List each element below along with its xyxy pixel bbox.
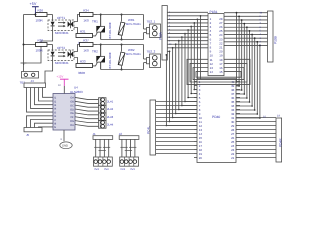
svg-text:MOV-7D431: MOV-7D431 [126, 23, 141, 26]
svg-text:OB: OB [70, 101, 74, 104]
svg-text:BT139-600E: BT139-600E [108, 52, 112, 68]
wire LED cathode return [24, 26, 53, 65]
label P10A pin numbers [169, 11, 172, 46]
svg-text:+12V: +12V [57, 75, 64, 79]
svg-text:OPT2: OPT2 [57, 46, 65, 50]
svg-text:U4: U4 [74, 85, 78, 89]
svg-text:OPT1: OPT1 [57, 16, 65, 20]
wire bundle PC4L to PD40 [156, 102, 194, 154]
wire bundle right riser staircase [236, 12, 261, 119]
svg-text:MOV-7D431: MOV-7D431 [126, 53, 141, 56]
svg-text:MOC3041: MOC3041 [55, 31, 69, 35]
svg-text:J1: J1 [93, 132, 97, 136]
svg-text:R30: R30 [38, 38, 44, 42]
svg-text:TR2: TR2 [92, 50, 98, 54]
svg-text:ULN2803: ULN2803 [70, 90, 83, 94]
svg-text:WR1: WR1 [128, 18, 135, 22]
svg-text:J2: J2 [119, 132, 123, 136]
svg-text:2L#1: 2L#1 [107, 100, 114, 104]
svg-text:21: 21 [231, 156, 235, 160]
wire bundle bus wrap under P1B1 [187, 59, 250, 84]
svg-text:PC4L: PC4L [146, 126, 150, 134]
connector 2L#4 [99, 121, 114, 129]
svg-text:15: 15 [219, 70, 223, 74]
svg-text:J4: J4 [31, 79, 35, 83]
svg-text:BT139-600E: BT139-600E [108, 22, 112, 38]
connector J1 header [93, 132, 113, 139]
wire to LED anode [52, 15, 54, 22]
connector 2L#1 [99, 98, 114, 106]
ground GND [60, 130, 72, 149]
wire bundle J1 pins [94, 139, 110, 157]
wire rail junction tick [21, 63, 27, 72]
terminal block TB2_1 [147, 20, 161, 38]
IC U4 ULN2803 [53, 85, 83, 130]
svg-text:PD4R: PD4R [279, 138, 283, 147]
svg-text:R31: R31 [80, 30, 86, 34]
connector PD4R [276, 118, 283, 162]
svg-text:0V4: 0V4 [94, 168, 99, 171]
svg-text:GND: GND [62, 144, 68, 147]
wire bundle J5 to U4 inputs [27, 116, 54, 128]
svg-text:100R: 100R [36, 49, 44, 53]
wire neutral rail [101, 63, 147, 70]
svg-text:G: G [54, 126, 56, 129]
wire line rail [97, 15, 147, 30]
wire bundle U4 outputs [75, 97, 99, 126]
connector J5 [24, 128, 42, 138]
opto-coupler OPT2 [48, 46, 74, 65]
svg-text:0V4: 0V4 [120, 168, 125, 171]
svg-text:360R: 360R [78, 71, 86, 75]
connector 2L#2 [99, 105, 114, 113]
svg-text:R26: R26 [38, 8, 44, 12]
svg-text:WR2: WR2 [128, 48, 135, 52]
wire bundle P1B1 to P10B [224, 13, 268, 46]
label pin10 [263, 116, 266, 119]
opto-coupler OPT1 [48, 16, 74, 35]
svg-text:J5: J5 [26, 133, 30, 137]
svg-text:100R: 100R [36, 19, 44, 23]
resistor R31 [74, 28, 93, 46]
triac TR2 [92, 44, 105, 70]
wire bundle P10A to P1B1 [166, 12, 208, 55]
svg-text:+5V: +5V [30, 2, 37, 6]
wire bundle J2 pins [120, 139, 136, 157]
resistor R37 [74, 38, 97, 52]
terminal block J2 screws [120, 157, 139, 171]
connector J4 [24, 79, 46, 88]
svg-text:PD40: PD40 [212, 115, 220, 119]
svg-text:OC: OC [70, 104, 74, 107]
label pin19 [277, 115, 280, 118]
svg-text:P10B: P10B [273, 36, 277, 44]
terminal block TB2_2 [147, 50, 161, 68]
svg-text:MOC3041: MOC3041 [55, 61, 69, 65]
terminal block TB1 [20, 72, 39, 85]
svg-text:14: 14 [210, 70, 214, 74]
connector P10B [268, 11, 278, 62]
label BT139-600E [108, 52, 112, 68]
svg-text:2L#3: 2L#3 [107, 115, 114, 119]
resistor R34 [74, 8, 97, 22]
connector P10A [158, 6, 167, 61]
svg-text:R37: R37 [83, 38, 89, 42]
svg-text:TR1: TR1 [92, 20, 98, 24]
connector J2 header [119, 132, 139, 139]
svg-text:0V3: 0V3 [104, 168, 109, 171]
svg-text:OG: OG [70, 120, 74, 123]
svg-text:R34: R34 [83, 8, 89, 12]
wire bundle PD40 to PD4R [240, 118, 276, 158]
label P10B pin numbers [260, 11, 263, 47]
svg-text:2L#4: 2L#4 [107, 122, 114, 126]
svg-text:TB2_1: TB2_1 [147, 20, 156, 24]
svg-text:P10A: P10A [158, 31, 162, 40]
wire to LED anode [52, 45, 54, 52]
wire LED cathode return [45, 56, 53, 83]
triac TR1 [92, 14, 105, 40]
varistor WR1 [118, 14, 141, 41]
node +5V junction [34, 14, 36, 16]
wire bundle J4 to U4 inputs [27, 88, 54, 113]
connector P1B1 [208, 10, 224, 76]
svg-text:R33: R33 [80, 60, 86, 64]
svg-text:OF: OF [70, 116, 74, 119]
svg-text:OE: OE [70, 112, 74, 115]
terminal block J1 screws [94, 157, 113, 171]
svg-text:20: 20 [199, 156, 203, 160]
power VCC pin10 [57, 75, 69, 94]
svg-text:TB2_2: TB2_2 [147, 50, 156, 54]
connector PD40 [194, 79, 240, 163]
svg-text:OA: OA [70, 97, 74, 100]
power +5V [30, 2, 39, 15]
wire neutral rail [101, 33, 147, 40]
svg-text:0V3: 0V3 [130, 168, 135, 171]
svg-text:P1B1: P1B1 [210, 10, 218, 14]
connector PC4L [146, 100, 155, 155]
resistor R30 [24, 38, 53, 52]
svg-text:1K0: 1K0 [83, 19, 89, 23]
svg-text:1K0: 1K0 [83, 49, 89, 53]
resistor R33 [74, 58, 93, 76]
wire bundle left riser staircase [166, 15, 202, 126]
varistor WR2 [118, 44, 141, 71]
svg-text:OD: OD [70, 108, 74, 111]
connector 2L#3 [99, 113, 114, 121]
wire line rail [97, 45, 147, 60]
wire gate [93, 33, 98, 36]
wire gate [93, 63, 98, 66]
label BT139-600E [108, 22, 112, 38]
svg-text:OH: OH [70, 124, 74, 127]
wire +5V vertical rail [23, 15, 25, 64]
resistor R26 [24, 8, 53, 22]
svg-text:2L#2: 2L#2 [107, 107, 114, 111]
